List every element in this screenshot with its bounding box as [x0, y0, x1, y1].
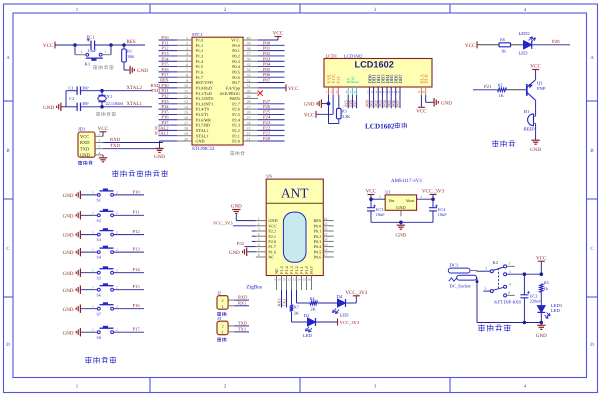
svg-text:P32: P32 — [161, 93, 169, 98]
wire pin 8 — [373, 95, 375, 108]
wire — [81, 272, 97, 274]
wire pin 7 — [368, 95, 370, 108]
label anjianfuwei — [93, 65, 97, 67]
svg-text:8: 8 — [258, 253, 260, 257]
svg-text:P22: P22 — [263, 125, 271, 130]
capacitor C2 30P — [66, 106, 77, 108]
svg-text:LCD1602: LCD1602 — [344, 53, 363, 58]
svg-text:P1.1: P1.1 — [196, 43, 204, 48]
svg-text:D: D — [6, 342, 10, 348]
svg-text:P01: P01 — [263, 46, 271, 51]
capacitor EC2 220uF — [523, 274, 525, 295]
svg-text:VCC_3V3: VCC_3V3 — [345, 290, 368, 296]
svg-text:U6: U6 — [266, 174, 272, 179]
svg-text:R5: R5 — [342, 108, 347, 113]
power port VCC_3V3 (D4) — [353, 295, 360, 297]
svg-text:2: 2 — [81, 50, 83, 54]
svg-text:P13: P13 — [133, 247, 141, 252]
pin 40 VCC — [243, 39, 258, 41]
svg-text:2: 2 — [258, 222, 260, 226]
wire — [159, 55, 178, 57]
pin 10 P3.0/RxD — [177, 87, 192, 89]
svg-text:ANT: ANT — [281, 186, 309, 201]
svg-text:P03: P03 — [263, 56, 271, 61]
wire P1.4 TX1 — [286, 290, 288, 308]
svg-text:GND: GND — [63, 271, 74, 277]
svg-text:11: 11 — [184, 88, 188, 93]
wire — [159, 129, 178, 131]
svg-text:24: 24 — [324, 217, 328, 221]
svg-text:P20: P20 — [552, 39, 560, 45]
svg-text:2K: 2K — [311, 307, 317, 312]
svg-text:P20: P20 — [263, 136, 271, 141]
svg-text:1K: 1K — [501, 49, 507, 54]
pin 3 wire — [507, 273, 542, 275]
ground (key S5) — [79, 269, 81, 277]
svg-text:Q1: Q1 — [537, 80, 543, 85]
svg-text:15: 15 — [184, 110, 188, 115]
buzzer B1 BEEP — [528, 114, 534, 126]
svg-text:P0.5: P0.5 — [232, 69, 240, 74]
svg-text:15: 15 — [417, 90, 421, 94]
svg-text:P0.6: P0.6 — [314, 255, 322, 260]
wire — [258, 129, 285, 131]
svg-text:14: 14 — [396, 90, 400, 94]
wire — [258, 82, 285, 84]
svg-text:17: 17 — [324, 253, 328, 257]
pin 18 P0.5 — [323, 251, 333, 253]
wire — [159, 39, 178, 41]
wire — [318, 302, 338, 304]
svg-text:C1: C1 — [69, 85, 75, 90]
pin 31 EA/Vpp — [243, 87, 258, 89]
svg-text:GND: GND — [395, 233, 406, 239]
wire — [81, 234, 97, 236]
svg-text:20: 20 — [184, 136, 188, 141]
svg-text:P3.5/T1: P3.5/T1 — [196, 112, 209, 117]
svg-text:P15: P15 — [133, 284, 141, 289]
svg-text:Y1: Y1 — [107, 94, 113, 99]
node junction — [369, 197, 373, 201]
pin 2 wire RXD — [95, 142, 103, 144]
svg-text:P2.3: P2.3 — [232, 123, 240, 128]
svg-text:1: 1 — [508, 261, 510, 266]
LED D-LED2 — [524, 41, 532, 49]
svg-text:12: 12 — [184, 94, 188, 99]
svg-text:2: 2 — [116, 211, 118, 215]
wire pin 10 — [381, 95, 383, 108]
wire — [532, 44, 570, 46]
pin 17 P0.6 — [323, 256, 333, 258]
resistor R2 1K — [498, 88, 507, 92]
ground (key S7) — [79, 305, 81, 313]
svg-text:10: 10 — [278, 277, 282, 281]
svg-text:GND: GND — [304, 102, 315, 108]
svg-text:P05: P05 — [263, 67, 271, 72]
pushbutton K1 — [74, 45, 76, 55]
svg-text:P17: P17 — [161, 72, 169, 77]
svg-text:GND: GND — [63, 330, 74, 336]
connector J3 — [217, 321, 228, 335]
wire — [159, 76, 178, 78]
svg-text:GND: GND — [396, 205, 405, 210]
svg-text:P2.5: P2.5 — [232, 112, 240, 117]
svg-text:1: 1 — [92, 268, 94, 272]
ground (LCD BLK) — [425, 95, 427, 102]
svg-text:S7: S7 — [97, 311, 101, 316]
svg-text:P3.2/INT0: P3.2/INT0 — [196, 96, 214, 101]
label danpianji — [230, 151, 234, 153]
svg-text:LCD1: LCD1 — [326, 53, 338, 58]
svg-text:GND: GND — [63, 233, 74, 239]
node junction — [476, 280, 479, 283]
svg-text:BEEP: BEEP — [524, 127, 536, 132]
ground (AMS) — [400, 222, 402, 224]
ground (key S8) — [79, 328, 81, 336]
wire — [114, 234, 145, 236]
power port VCC (JD1) — [102, 132, 104, 137]
svg-text:P0.6: P0.6 — [232, 75, 240, 80]
title duli anjian — [85, 357, 92, 359]
wire — [159, 60, 178, 62]
svg-text:P10: P10 — [161, 35, 169, 40]
wire — [159, 124, 178, 126]
svg-text:1: 1 — [99, 132, 101, 136]
pin 24 P2.3 — [243, 124, 258, 126]
wire — [258, 108, 285, 110]
svg-text:P3.6/WR: P3.6/WR — [196, 117, 212, 122]
svg-text:1K: 1K — [499, 93, 505, 98]
svg-text:D: D — [590, 342, 594, 348]
svg-text:RXD: RXD — [80, 140, 90, 145]
pin 19 XTAL1 — [177, 135, 192, 137]
svg-text:10: 10 — [378, 90, 382, 94]
svg-text:VCC: VCC — [98, 126, 109, 132]
svg-text:LCD1602: LCD1602 — [365, 122, 395, 130]
svg-text:GND: GND — [536, 333, 547, 339]
wire gnd rail — [371, 221, 433, 223]
svg-text:10K: 10K — [127, 54, 135, 59]
wire — [55, 44, 75, 46]
resistor R4 2K — [310, 301, 318, 305]
svg-text:P1.3: P1.3 — [196, 54, 204, 59]
svg-text:P2.0: P2.0 — [232, 139, 240, 144]
node junction — [399, 221, 403, 225]
svg-text:STC1: STC1 — [192, 32, 203, 37]
label xiazaikou — [78, 160, 82, 162]
svg-text:1: 1 — [221, 304, 223, 309]
svg-text:P15: P15 — [161, 62, 169, 67]
svg-text:BLK: BLK — [424, 73, 430, 83]
pin 3 Vin — [371, 198, 385, 200]
wire pin 13 — [395, 95, 397, 108]
pushbutton S4 — [97, 251, 100, 254]
svg-text:S5: S5 — [97, 275, 101, 280]
node junction — [523, 272, 527, 276]
svg-text:3: 3 — [509, 269, 511, 274]
power port VCC (AMS in) — [368, 194, 375, 196]
svg-text:6: 6 — [186, 62, 188, 67]
pin 6 stub — [507, 294, 515, 296]
svg-text:1: 1 — [258, 217, 260, 221]
svg-text:P04: P04 — [263, 62, 271, 67]
wire — [258, 55, 285, 57]
wire — [159, 97, 178, 99]
resistor R6 1K — [499, 43, 511, 47]
wire — [159, 135, 178, 137]
svg-text:S2: S2 — [97, 218, 101, 223]
LED D-LED1 — [537, 306, 545, 313]
title dianyuan dianlu — [478, 324, 485, 326]
svg-text:10uF: 10uF — [88, 48, 97, 53]
svg-text:VCC: VCC — [530, 64, 541, 70]
svg-text:DC1: DC1 — [450, 263, 459, 268]
svg-text:P32: P32 — [237, 241, 245, 246]
wire — [114, 272, 145, 274]
wire P1.5 RX1 — [281, 290, 283, 308]
svg-text:2: 2 — [485, 266, 487, 271]
pin 39 P0.0 — [243, 44, 258, 46]
capacitor EC3 10uF — [370, 199, 372, 208]
pin 8 P1.7 — [177, 76, 192, 78]
wire — [247, 251, 256, 253]
svg-text:LED2: LED2 — [519, 31, 531, 36]
connector JD1 — [78, 132, 95, 157]
svg-text:P3.0/RxD: P3.0/RxD — [196, 85, 213, 90]
svg-text:P13: P13 — [161, 51, 169, 56]
svg-text:23: 23 — [247, 126, 251, 131]
node junction — [100, 105, 104, 109]
wire — [159, 113, 178, 115]
svg-text:P3.1/TxD: P3.1/TxD — [196, 91, 212, 96]
svg-text:GND: GND — [229, 250, 240, 256]
label tiaoshi J2 — [217, 312, 221, 314]
pin 14 P3.4/T0 — [177, 108, 192, 110]
wire — [81, 106, 153, 108]
svg-text:P1.2: P1.2 — [196, 48, 204, 53]
pushbutton S2 — [97, 214, 100, 217]
svg-text:9: 9 — [186, 78, 188, 83]
svg-text:B1: B1 — [524, 109, 530, 114]
svg-text:P0.4: P0.4 — [232, 64, 240, 69]
node junction — [540, 321, 544, 325]
svg-text:VCC: VCC — [80, 134, 89, 139]
svg-text:GND: GND — [63, 288, 74, 294]
svg-text:DB7: DB7 — [398, 74, 404, 84]
svg-text:P0.7: P0.7 — [232, 80, 240, 85]
wire — [535, 123, 537, 139]
svg-text:14: 14 — [298, 277, 302, 281]
pin 22 P2.1 — [243, 135, 258, 137]
wire — [473, 89, 498, 91]
svg-text:P0.7: P0.7 — [309, 266, 314, 274]
svg-text:5: 5 — [484, 285, 486, 290]
svg-text:RXD: RXD — [110, 137, 121, 143]
svg-text:VCC_3V3: VCC_3V3 — [422, 189, 445, 195]
svg-text:R2: R2 — [498, 82, 503, 87]
svg-text:38: 38 — [247, 46, 251, 51]
svg-text:VCC: VCC — [43, 43, 54, 49]
svg-text:GND: GND — [63, 213, 74, 219]
resistor R7 2K — [290, 305, 294, 312]
svg-text:21: 21 — [324, 232, 328, 236]
svg-text:GND: GND — [441, 100, 452, 106]
pin 3 P2.2 — [256, 230, 266, 232]
pin 1 wire — [95, 135, 103, 137]
wire VO — [338, 95, 340, 108]
wire — [62, 106, 67, 108]
wire collector — [535, 100, 537, 116]
LED D4 — [338, 299, 346, 307]
pushbutton S5 — [97, 271, 100, 274]
svg-text:TX1: TX1 — [238, 327, 246, 332]
capacitor C1 30P — [76, 87, 78, 95]
svg-text:TXD: TXD — [238, 321, 247, 326]
ic LCD1 LCD1602 — [324, 59, 432, 88]
wire — [159, 66, 178, 68]
svg-text:P2.2: P2.2 — [232, 128, 240, 133]
svg-text:2: 2 — [116, 230, 118, 234]
svg-text:VCC: VCC — [416, 109, 427, 115]
pin 24 RES — [323, 220, 333, 222]
svg-text:GND: GND — [63, 193, 74, 199]
ic U-STC1 STC89C52 — [192, 37, 243, 145]
svg-text:J2: J2 — [217, 291, 222, 296]
wire — [245, 246, 256, 248]
svg-text:R7: R7 — [294, 304, 300, 309]
pin 2 VCC — [256, 225, 266, 227]
svg-text:2: 2 — [99, 138, 101, 142]
svg-text:26: 26 — [247, 110, 251, 115]
svg-text:VCC: VCC — [331, 74, 337, 84]
ground (key S3) — [79, 230, 81, 238]
svg-text:17: 17 — [184, 120, 188, 125]
svg-text:LED: LED — [303, 333, 313, 338]
svg-text:ALE/PROG: ALE/PROG — [219, 91, 239, 96]
wire — [258, 113, 285, 115]
svg-text:P1.0: P1.0 — [196, 38, 204, 43]
ground (supply) — [540, 323, 542, 325]
wire — [540, 292, 542, 305]
wire — [159, 87, 178, 89]
pin 12 P3.2/INT0 — [177, 97, 192, 99]
svg-text:3: 3 — [186, 46, 188, 51]
svg-text:STC89C52: STC89C52 — [192, 146, 215, 152]
svg-text:30P: 30P — [82, 85, 89, 90]
ground (key S6) — [79, 286, 81, 294]
svg-text:PSEN: PSEN — [230, 96, 240, 101]
wire — [159, 50, 178, 52]
svg-text:P1.5: P1.5 — [196, 64, 204, 69]
node junction — [327, 102, 331, 106]
svg-text:32: 32 — [247, 78, 251, 83]
power port VCC (EA/Vpp) — [258, 87, 286, 89]
svg-text:P2.1: P2.1 — [232, 133, 240, 138]
svg-text:P24: P24 — [263, 115, 271, 120]
svg-text:GND: GND — [137, 68, 148, 74]
svg-text:P1.4: P1.4 — [196, 59, 204, 64]
svg-text:P00: P00 — [263, 40, 271, 45]
svg-text:3: 3 — [379, 195, 381, 199]
pin 4 ground — [95, 154, 103, 156]
svg-text:P0.2: P0.2 — [232, 54, 240, 59]
wire — [258, 119, 285, 121]
svg-text:35: 35 — [247, 62, 251, 67]
wire — [81, 331, 97, 333]
svg-text:P27: P27 — [263, 99, 271, 104]
wire — [81, 289, 97, 291]
svg-text:4: 4 — [186, 51, 188, 56]
svg-text:10uF: 10uF — [438, 212, 447, 217]
pin 22 P0.1 — [323, 230, 333, 232]
svg-text:RXD P30: RXD P30 — [151, 83, 170, 88]
svg-text:20: 20 — [324, 238, 328, 242]
wire — [159, 92, 178, 94]
wire — [511, 44, 524, 46]
svg-text:13: 13 — [184, 99, 188, 104]
pin 5 P1.4 — [177, 60, 192, 62]
pin 4 P2.1 — [256, 235, 266, 237]
svg-text:VCC: VCC — [536, 255, 547, 261]
svg-text:37: 37 — [247, 51, 251, 56]
wire — [258, 135, 285, 137]
svg-text:5: 5 — [186, 57, 188, 62]
svg-text:P27: P27 — [352, 100, 357, 107]
ic U3 AMS1117 — [385, 195, 416, 210]
pin 7 P1.6 — [256, 251, 266, 253]
svg-text:XTAL1: XTAL1 — [154, 131, 169, 136]
svg-text:S3: S3 — [97, 237, 101, 242]
pin 1 stub — [507, 265, 515, 267]
svg-text:P37: P37 — [161, 120, 169, 125]
pin 6 P1.5 — [177, 66, 192, 68]
svg-text:TX1: TX1 — [282, 299, 287, 307]
pin 23 P0.0 — [323, 225, 333, 227]
wire — [476, 278, 478, 323]
svg-text:GND: GND — [530, 147, 541, 153]
svg-text:1: 1 — [92, 304, 94, 308]
svg-text:P16: P16 — [161, 67, 169, 72]
pin 4 P1.3 — [177, 55, 192, 57]
wire — [258, 66, 285, 68]
no-connect X (ALE/PROG) — [258, 91, 263, 96]
svg-text:P02: P02 — [263, 51, 271, 56]
svg-text:XTAL2: XTAL2 — [154, 125, 169, 130]
svg-text:P21: P21 — [263, 131, 271, 136]
svg-text:3: 3 — [99, 145, 101, 149]
pin wires J2 — [228, 299, 234, 301]
wire — [159, 71, 178, 73]
svg-text:VCC: VCC — [366, 189, 377, 195]
svg-text:P14: P14 — [133, 267, 141, 272]
pin 11 P3.1/TxD — [177, 92, 192, 94]
svg-text:P23: P23 — [263, 120, 271, 125]
svg-text:2: 2 — [420, 195, 422, 199]
svg-text:RES: RES — [160, 78, 169, 83]
pushbutton S7 — [97, 307, 100, 310]
svg-text:P36: P36 — [161, 115, 169, 120]
pin 20 GND — [177, 140, 192, 142]
wire — [81, 90, 153, 92]
capacitor EC4 10uF — [432, 199, 434, 208]
svg-text:13: 13 — [392, 90, 396, 94]
svg-text:P3.3/INT1: P3.3/INT1 — [196, 101, 214, 106]
svg-text:22: 22 — [247, 131, 251, 136]
svg-text:P06: P06 — [263, 72, 271, 77]
svg-text:24: 24 — [247, 120, 251, 125]
wire pin 6 — [356, 95, 358, 108]
svg-text:P16: P16 — [133, 303, 141, 308]
